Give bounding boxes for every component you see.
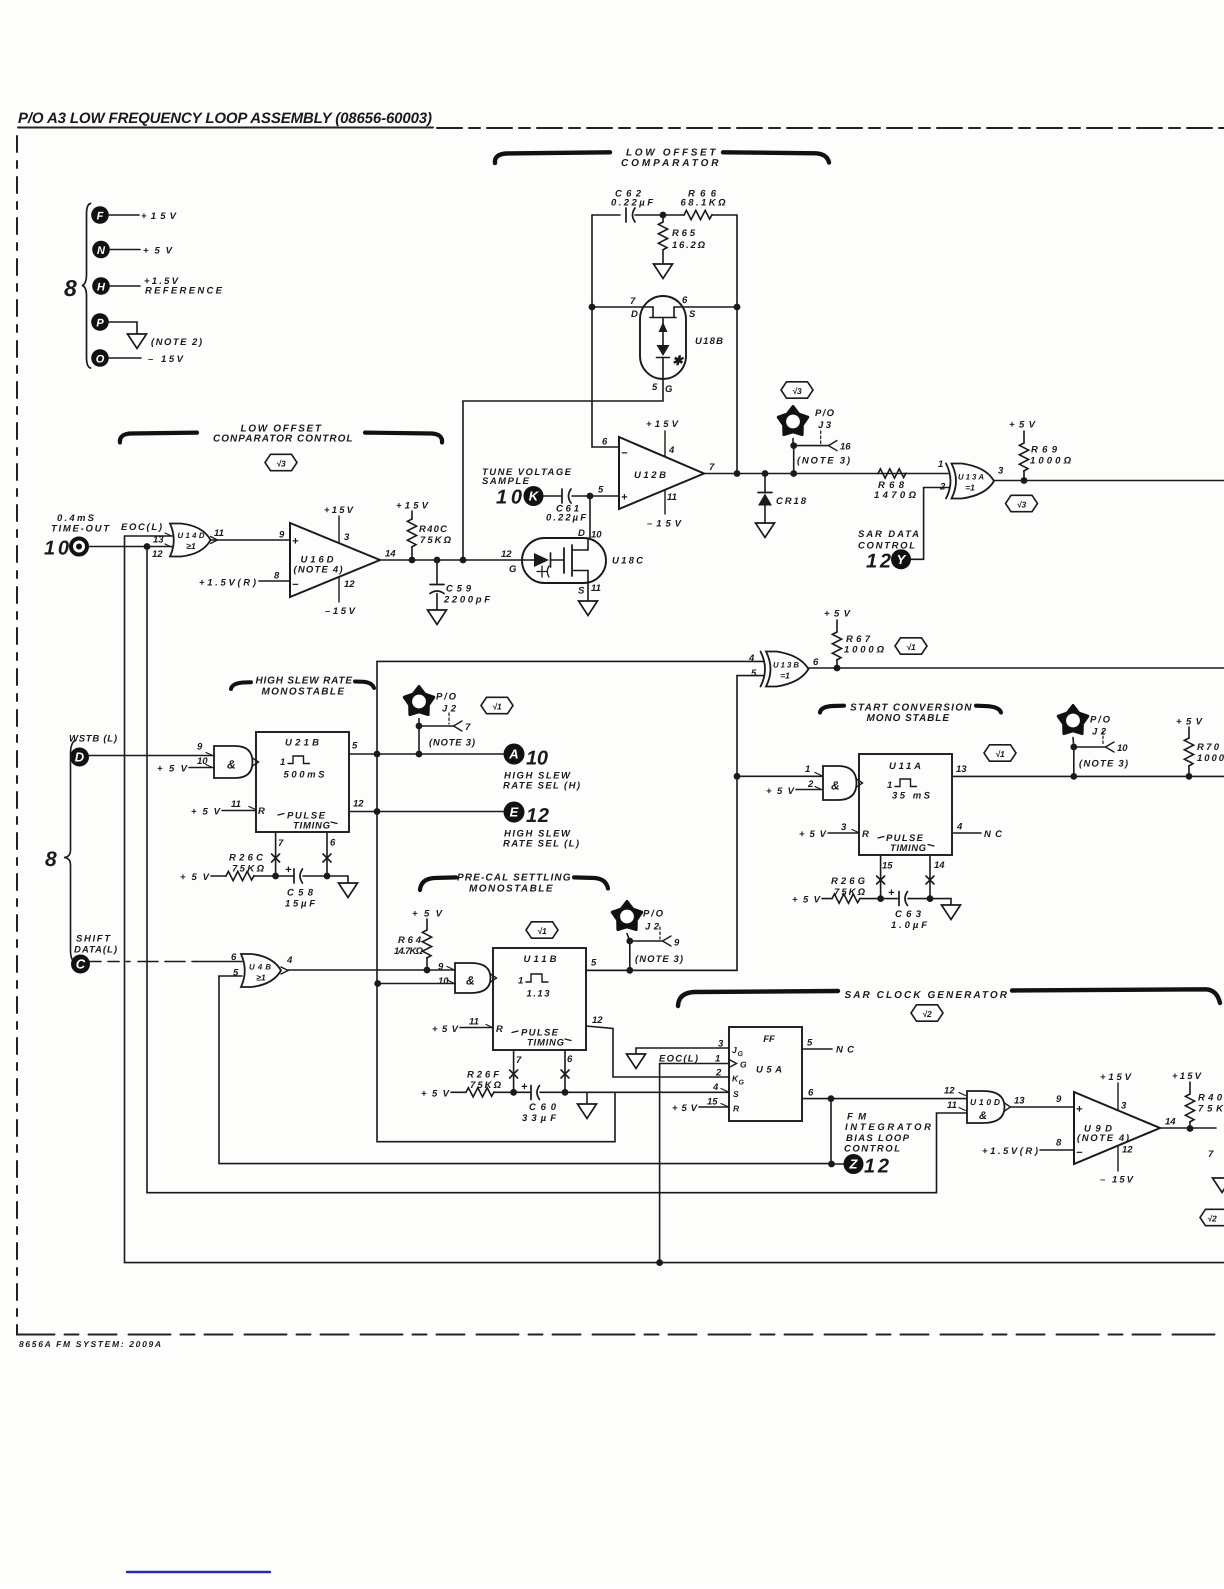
- svg-text:7: 7: [516, 1055, 522, 1066]
- svg-text:+5V: +5V: [1176, 717, 1203, 728]
- svg-text:EOC(L): EOC(L): [121, 522, 162, 533]
- svg-text:+5V: +5V: [672, 1103, 698, 1114]
- wire: U11B pin5 output: [586, 969, 737, 971]
- node: 0.4mS TIME-OUT 10-Q: [44, 513, 110, 560]
- svg-text:R69: R69: [1031, 445, 1058, 456]
- svg-text:–15V: –15V: [325, 606, 356, 617]
- svg-text:1.13: 1.13: [527, 989, 551, 1000]
- svg-text:C59: C59: [446, 584, 472, 595]
- flip-flop U5A: [707, 1027, 814, 1121]
- svg-text:BIAS LOOP: BIAS LOOP: [846, 1133, 910, 1144]
- wire: U18C source to ground: [587, 583, 589, 601]
- wire: time-out bus to U10D pin11: [147, 547, 937, 1193]
- capacitor C63: [881, 887, 930, 931]
- ground at C63: [942, 905, 961, 920]
- wire: J2 pin7 tap down: [418, 726, 420, 754]
- svg-text:R40: R40: [1198, 1093, 1223, 1104]
- svg-text:√2: √2: [1207, 1214, 1217, 1224]
- svg-text:R26C: R26C: [229, 853, 263, 864]
- svg-text:14: 14: [385, 549, 396, 560]
- resistor R40C: [396, 501, 452, 561]
- svg-text:+1.5V(R): +1.5V(R): [982, 1146, 1038, 1157]
- resistor R26C: [180, 853, 276, 884]
- wire: U4B pin5 from feedback bus: [219, 975, 242, 977]
- net +5V to U11B R pin11: [432, 1024, 493, 1035]
- title: P/O A3 LOW FREQUENCY LOOP ASSEMBLY: [18, 110, 433, 128]
- svg-text:Z: Z: [849, 1157, 859, 1172]
- hexagon check1 (start conversion): [984, 745, 1016, 761]
- svg-text:CONTROL: CONTROL: [844, 1144, 900, 1155]
- svg-text:F: F: [97, 211, 104, 223]
- net +5V to U11A R pin3: [799, 829, 859, 840]
- svg-text:10: 10: [197, 756, 208, 767]
- ground at U18C source: [579, 601, 598, 616]
- junction 10Q bus tap: [144, 543, 151, 550]
- heading LOW OFFSET CONPARATOR CONTROL: [120, 424, 442, 445]
- resistor R65: [658, 215, 705, 264]
- diode CR18: [758, 474, 807, 524]
- svg-text:+: +: [521, 1081, 528, 1093]
- wire: U4B pin5 feedback bus to Z12 line: [219, 976, 832, 1164]
- heading PRE-CAL SETTLING MONOSTABLE: [420, 873, 608, 895]
- junction at CR18: [762, 470, 769, 477]
- junction Z12: [828, 1161, 835, 1168]
- svg-text:5: 5: [591, 958, 597, 969]
- svg-text:≥1: ≥1: [186, 541, 196, 551]
- junction R26G/C63: [877, 895, 884, 902]
- sheet border dashed left: [16, 136, 18, 1330]
- svg-text:SAMPLE: SAMPLE: [482, 476, 530, 487]
- wire: U11B timing pins 7,6: [514, 1050, 565, 1092]
- svg-text:13: 13: [956, 764, 967, 775]
- connector 8 brace (D/C pins): [45, 740, 76, 963]
- svg-text:(NOTE 3): (NOTE 3): [635, 954, 683, 965]
- svg-text:16.2Ω: 16.2Ω: [672, 240, 706, 251]
- junction J2-10 tap: [1070, 773, 1077, 780]
- svg-text:+1.5V(R): +1.5V(R): [199, 578, 256, 589]
- svg-text:1: 1: [938, 459, 943, 470]
- svg-text:1000: 1000: [1197, 753, 1224, 764]
- wire: U11A pin13 to sheet edge: [952, 775, 1224, 777]
- svg-text:SAR CLOCK GENERATOR: SAR CLOCK GENERATOR: [845, 990, 1008, 1001]
- svg-text:START CONVERSION: START CONVERSION: [850, 703, 972, 714]
- wire: U13A output to sheet edge: [994, 480, 1224, 482]
- svg-text:U13B: U13B: [773, 661, 799, 670]
- svg-text:R: R: [496, 1024, 503, 1035]
- resistor R26G: [792, 876, 881, 906]
- junction pin12/riser: [374, 808, 381, 815]
- hexagon check2 (SAR clock): [911, 1005, 943, 1021]
- pin O (-15V): [91, 349, 183, 367]
- resistor R69: [1009, 420, 1072, 481]
- svg-text:12: 12: [1122, 1145, 1133, 1156]
- svg-text:FM: FM: [847, 1112, 867, 1123]
- XOR gate U13B: [748, 652, 819, 687]
- svg-text:3: 3: [998, 466, 1004, 477]
- svg-text:0.4mS: 0.4mS: [57, 513, 95, 524]
- wire: 12Y to U13A pin2: [911, 488, 949, 560]
- junction C59: [434, 557, 441, 564]
- wire: J2 pin9 tap down: [629, 941, 631, 970]
- svg-text:+15V: +15V: [324, 505, 354, 516]
- svg-text:+15V: +15V: [646, 419, 679, 430]
- junction pin5/riser: [374, 751, 381, 758]
- heading LOW OFFSET COMPARATOR: [495, 148, 829, 170]
- svg-text:12: 12: [353, 799, 364, 810]
- wire: U12B output node: [704, 473, 948, 475]
- ground below CR18: [756, 523, 775, 538]
- svg-text:√1: √1: [906, 642, 916, 652]
- svg-text:+5V: +5V: [143, 246, 173, 257]
- select mark pin14: [926, 876, 934, 884]
- junction C63/gnd branch: [927, 895, 934, 902]
- wire: C63 to ground: [930, 899, 951, 905]
- svg-text:U12B: U12B: [634, 470, 666, 481]
- node: SAR DATA CONTROL 12-Y: [858, 529, 919, 573]
- note: FM INTEGRATOR BIAS LOOP CONTROL: [844, 1112, 931, 1155]
- dual FET U18B: [592, 295, 737, 395]
- select mark pin6: [561, 1070, 569, 1078]
- svg-text:+15V: +15V: [1172, 1071, 1202, 1082]
- svg-text:11: 11: [231, 799, 241, 810]
- svg-text:10: 10: [526, 748, 548, 770]
- svg-text:R65: R65: [672, 228, 696, 239]
- junction C60/S wire: [562, 1089, 569, 1096]
- svg-text:15: 15: [707, 1097, 718, 1108]
- svg-text:3: 3: [841, 822, 847, 833]
- junction C61/pin5/U18C drain: [587, 493, 594, 500]
- resistor R67: [824, 609, 885, 669]
- svg-text:MONOSTABLE: MONOSTABLE: [469, 884, 553, 895]
- svg-text:U4B: U4B: [249, 963, 271, 972]
- svg-text:3: 3: [344, 532, 350, 543]
- svg-text:+5V: +5V: [180, 872, 210, 883]
- hexagon check1 (pre-cal): [526, 922, 558, 938]
- svg-text:1000Ω: 1000Ω: [1030, 456, 1072, 467]
- svg-text:12: 12: [866, 551, 891, 573]
- wire: drain U18C up to pin5 node: [589, 496, 591, 538]
- svg-text:−: −: [292, 579, 299, 591]
- svg-text:15: 15: [882, 861, 893, 872]
- wire: pin11 riser corner: [937, 1113, 968, 1193]
- net +5V to U5A R pin15: [672, 1103, 729, 1114]
- junction riser/pin10: [374, 980, 381, 987]
- svg-text:(NOTE 3): (NOTE 3): [429, 738, 475, 749]
- svg-text:10: 10: [591, 530, 602, 541]
- svg-text:11: 11: [667, 492, 677, 503]
- sheet border dashed top: [437, 127, 1224, 129]
- svg-text:R26F: R26F: [467, 1070, 499, 1081]
- svg-text:+5V: +5V: [766, 786, 795, 797]
- svg-text:16: 16: [840, 442, 851, 453]
- svg-text:9: 9: [438, 962, 444, 973]
- svg-text:TIME-OUT: TIME-OUT: [51, 524, 110, 535]
- svg-text:8: 8: [45, 848, 57, 871]
- svg-text:C63: C63: [895, 909, 922, 920]
- svg-text:+5V: +5V: [412, 909, 443, 920]
- heading START CONVERSION MONO STABLE: [820, 703, 1001, 725]
- svg-text:4: 4: [748, 653, 755, 664]
- XOR gate U13A: [938, 459, 1004, 499]
- svg-text:75KΩ: 75KΩ: [420, 535, 452, 546]
- junction Q output tap: [828, 1095, 835, 1102]
- wire: 10Q to U14D pin12: [88, 546, 172, 548]
- junction R70: [1186, 773, 1193, 780]
- svg-text:15µF: 15µF: [285, 899, 315, 910]
- svg-text:SHIFT: SHIFT: [76, 934, 111, 945]
- svg-text:R: R: [733, 1104, 740, 1114]
- svg-text:C58: C58: [287, 888, 314, 899]
- svg-text:R40C: R40C: [419, 524, 447, 535]
- svg-text:C: C: [76, 957, 86, 972]
- hexagon check3 (SAR output): [1006, 495, 1038, 511]
- svg-text:7: 7: [709, 462, 715, 473]
- capacitor C59: [430, 560, 490, 610]
- capacitor C62: [611, 189, 653, 223]
- wire: U11B pin12 to U5A KG: [586, 1026, 729, 1077]
- capacitor C61: [544, 489, 591, 524]
- svg-text:−: −: [1076, 1147, 1083, 1159]
- resistor R70: [1176, 717, 1224, 777]
- junction R69: [1021, 477, 1028, 484]
- svg-text:12: 12: [944, 1086, 955, 1097]
- svg-text:U11B: U11B: [524, 954, 557, 965]
- svg-text:(NOTE 3): (NOTE 3): [1079, 759, 1128, 770]
- svg-text:7: 7: [1208, 1149, 1214, 1160]
- wire: J2 pin10 tap down: [1073, 747, 1075, 776]
- svg-text:12: 12: [526, 805, 549, 827]
- pin N (+5V): [92, 241, 172, 259]
- svg-text:TIMING: TIMING: [293, 821, 331, 832]
- svg-text:+15V: +15V: [141, 211, 177, 222]
- svg-text:75KΩ: 75KΩ: [834, 887, 866, 898]
- wire: EOC(L) into U5A pin1: [660, 1063, 729, 1065]
- hexagon check3 (comparator): [781, 382, 813, 398]
- svg-text:68.1KΩ: 68.1KΩ: [681, 198, 727, 209]
- connector star P/O J3 pin 16: [778, 407, 851, 467]
- junction R40D: [1187, 1125, 1194, 1132]
- junction at J3 tap: [790, 470, 797, 477]
- svg-text:– 15V: – 15V: [148, 354, 184, 365]
- svg-text:S: S: [733, 1089, 739, 1099]
- svg-text:NC: NC: [836, 1045, 854, 1056]
- svg-text:C60: C60: [529, 1102, 557, 1113]
- svg-text:1: 1: [518, 976, 523, 987]
- svg-text:+: +: [292, 536, 299, 548]
- svg-text:9: 9: [1056, 1094, 1062, 1105]
- wire: U4B out to U11B gate pin9: [288, 969, 455, 971]
- svg-text:−: −: [621, 448, 628, 460]
- svg-text:S: S: [578, 586, 585, 597]
- wire: U5A pin5 NC: [802, 1045, 854, 1056]
- AND gate at U11A input: [805, 764, 863, 800]
- wire: U13B output to sheet edge: [809, 667, 1224, 669]
- svg-text:8: 8: [274, 571, 280, 582]
- svg-text:H: H: [97, 282, 106, 294]
- resistor R68: [874, 469, 917, 501]
- wire: U21B pin12 to E12: [349, 811, 503, 813]
- ground at C60: [578, 1104, 597, 1119]
- svg-text:6: 6: [231, 952, 237, 963]
- svg-text:J2: J2: [645, 922, 660, 933]
- wire: U14D out to U16D: [211, 539, 291, 541]
- svg-text:+15V: +15V: [1100, 1072, 1132, 1083]
- svg-text:7: 7: [630, 296, 636, 307]
- svg-text:&: &: [831, 779, 840, 793]
- node: Z-12: [832, 1154, 890, 1178]
- connector star P/O J2 pin 9: [612, 902, 683, 966]
- svg-text:12: 12: [152, 549, 163, 560]
- junction R40C: [409, 557, 416, 564]
- svg-text:P/O: P/O: [1090, 715, 1111, 726]
- wire: J3 tap down to output node: [793, 446, 795, 474]
- svg-text:✱: ✱: [672, 353, 684, 368]
- junction R26F/C60: [510, 1089, 517, 1096]
- svg-text:5: 5: [598, 485, 604, 496]
- svg-text:S: S: [689, 309, 696, 320]
- wire: U21B timing pins 7,6: [276, 832, 327, 876]
- monostable U11A: [841, 754, 967, 872]
- wire: slew riser to U13B pin4: [377, 660, 764, 662]
- wire: D to U21B gate pin9: [89, 755, 214, 757]
- svg-text:PRE-CAL SETTLING: PRE-CAL SETTLING: [457, 873, 571, 884]
- net +5V to U21B pin10: [157, 764, 214, 775]
- wire: U11A timing pins 15,14: [881, 855, 930, 899]
- svg-text:J2: J2: [1092, 727, 1107, 738]
- net +1.5V(R) into U9D pin8: [982, 1146, 1074, 1157]
- svg-text:4: 4: [668, 445, 675, 456]
- svg-text:RATE SEL (H): RATE SEL (H): [503, 781, 580, 792]
- wire: slew riser to U11B gate pin10: [378, 983, 455, 985]
- svg-text:Y: Y: [897, 552, 907, 567]
- wire: EOC riser to U5A pin1: [659, 1064, 661, 1263]
- junction node C62/R66/R65: [660, 212, 667, 219]
- node: TUNE VOLTAGE SAMPLE 10-K: [482, 467, 572, 509]
- svg-text:5: 5: [807, 1038, 813, 1049]
- svg-text:A: A: [508, 747, 518, 762]
- svg-text:D: D: [578, 528, 585, 539]
- wire: U5A pin6 output to U10D pin12: [802, 1098, 967, 1100]
- svg-text:14: 14: [934, 860, 945, 871]
- svg-text:CR18: CR18: [776, 496, 807, 507]
- wire: C58 to ground: [327, 876, 348, 883]
- select mark pin7: [510, 1070, 518, 1078]
- svg-text:R: R: [258, 806, 265, 817]
- junction gate riser: [460, 557, 467, 564]
- junction at x737 output: [734, 470, 741, 477]
- svg-text:R64: R64: [398, 935, 422, 946]
- svg-text:RATE SEL (L): RATE SEL (L): [503, 839, 579, 850]
- svg-text:12: 12: [344, 579, 355, 590]
- svg-text:10: 10: [496, 487, 522, 509]
- svg-text:+: +: [621, 492, 628, 504]
- ground at JG: [627, 1054, 646, 1069]
- svg-text:4: 4: [712, 1082, 719, 1093]
- junction R67: [834, 665, 841, 672]
- svg-text:1: 1: [280, 757, 285, 768]
- svg-text:+5V: +5V: [1009, 420, 1036, 431]
- svg-text:9: 9: [674, 938, 680, 949]
- heading HIGH SLEW RATE MONOSTABLE: [231, 676, 374, 698]
- resistor R40D: [1172, 1071, 1224, 1129]
- svg-text:75KΩ: 75KΩ: [232, 864, 265, 875]
- svg-text:REFERENCE: REFERENCE: [145, 286, 223, 297]
- svg-text:+5V: +5V: [421, 1089, 450, 1100]
- svg-text:6: 6: [602, 437, 608, 448]
- svg-text:P/O A3 LOW FREQUENCY LOOP ASSE: P/O A3 LOW FREQUENCY LOOP ASSEMBLY (0865…: [18, 110, 432, 127]
- wire: U9D output: [1160, 1127, 1216, 1129]
- svg-text:7: 7: [278, 838, 284, 849]
- svg-text:N: N: [97, 245, 106, 257]
- svg-text:D: D: [631, 309, 638, 320]
- svg-text:6: 6: [682, 295, 688, 306]
- wire: ground stem on S wire: [586, 1092, 588, 1104]
- node: SHIFT DATA(L) C: [71, 934, 117, 974]
- svg-text:+5V: +5V: [799, 829, 827, 840]
- junction R26C/C58: [272, 873, 279, 880]
- wire: C60 node to U5A pin S: [565, 1091, 729, 1093]
- svg-text:√1: √1: [492, 702, 502, 712]
- junction R64: [424, 967, 431, 974]
- svg-text:√3: √3: [1017, 500, 1027, 510]
- svg-text:INTEGRATOR: INTEGRATOR: [845, 1122, 931, 1133]
- resistor R66: [681, 189, 727, 220]
- junction pin5/J2 tap: [416, 751, 423, 758]
- node: E-12 HIGH SLEW RATE SEL (L): [503, 802, 579, 850]
- svg-text:G: G: [738, 1051, 744, 1058]
- wire: comparator feedback loop (C62/R66 ring): [592, 215, 737, 474]
- svg-text:6: 6: [813, 657, 819, 668]
- junction C58/gnd branch: [324, 873, 331, 880]
- junction U11A gate tap: [734, 773, 741, 780]
- capacitor C58: [276, 864, 327, 910]
- svg-text:2: 2: [715, 1068, 722, 1079]
- svg-text:U11A: U11A: [889, 761, 921, 772]
- connector 8 brace (top-left power pins): [64, 204, 91, 369]
- svg-text:P/O: P/O: [436, 692, 457, 703]
- blue pen mark bottom: [127, 1571, 270, 1573]
- wire: EOC(L) into U14D pin13: [125, 535, 173, 537]
- svg-text:5: 5: [233, 968, 239, 979]
- monostable U11B: [469, 948, 603, 1066]
- svg-text:(NOTE 3): (NOTE 3): [797, 456, 850, 467]
- wire: U16D output control line: [380, 559, 522, 561]
- connector star P/O J2 pin 7: [404, 687, 475, 749]
- svg-text:–15V: –15V: [647, 519, 682, 530]
- svg-text:8: 8: [64, 275, 77, 301]
- svg-text:12: 12: [864, 1156, 889, 1178]
- svg-text:DATA(L): DATA(L): [74, 945, 117, 956]
- svg-text:MONOSTABLE: MONOSTABLE: [262, 687, 345, 698]
- svg-text:500mS: 500mS: [284, 770, 326, 781]
- op-amp U12B: [590, 419, 715, 530]
- wire: slew riser bus: [377, 661, 615, 1141]
- svg-text:√3: √3: [792, 386, 802, 396]
- hexagon check1 (high slew): [481, 697, 513, 713]
- svg-text:E: E: [510, 805, 519, 820]
- node: A-10 HIGH SLEW RATE SEL (H): [503, 744, 580, 792]
- svg-text:9: 9: [279, 530, 285, 541]
- svg-text:+15V: +15V: [396, 501, 429, 512]
- svg-text:&: &: [466, 974, 475, 988]
- wire: EOC(L) bus (U14D pin13 / U5A pin1 / sheet edge): [125, 536, 1224, 1263]
- svg-text:WSTB (L): WSTB (L): [69, 734, 117, 745]
- svg-text:=1: =1: [780, 671, 790, 681]
- svg-text:G: G: [665, 384, 673, 395]
- svg-text:+5V: +5V: [191, 807, 221, 818]
- svg-text:75K: 75K: [1198, 1104, 1224, 1115]
- svg-text:TIMING: TIMING: [527, 1038, 565, 1049]
